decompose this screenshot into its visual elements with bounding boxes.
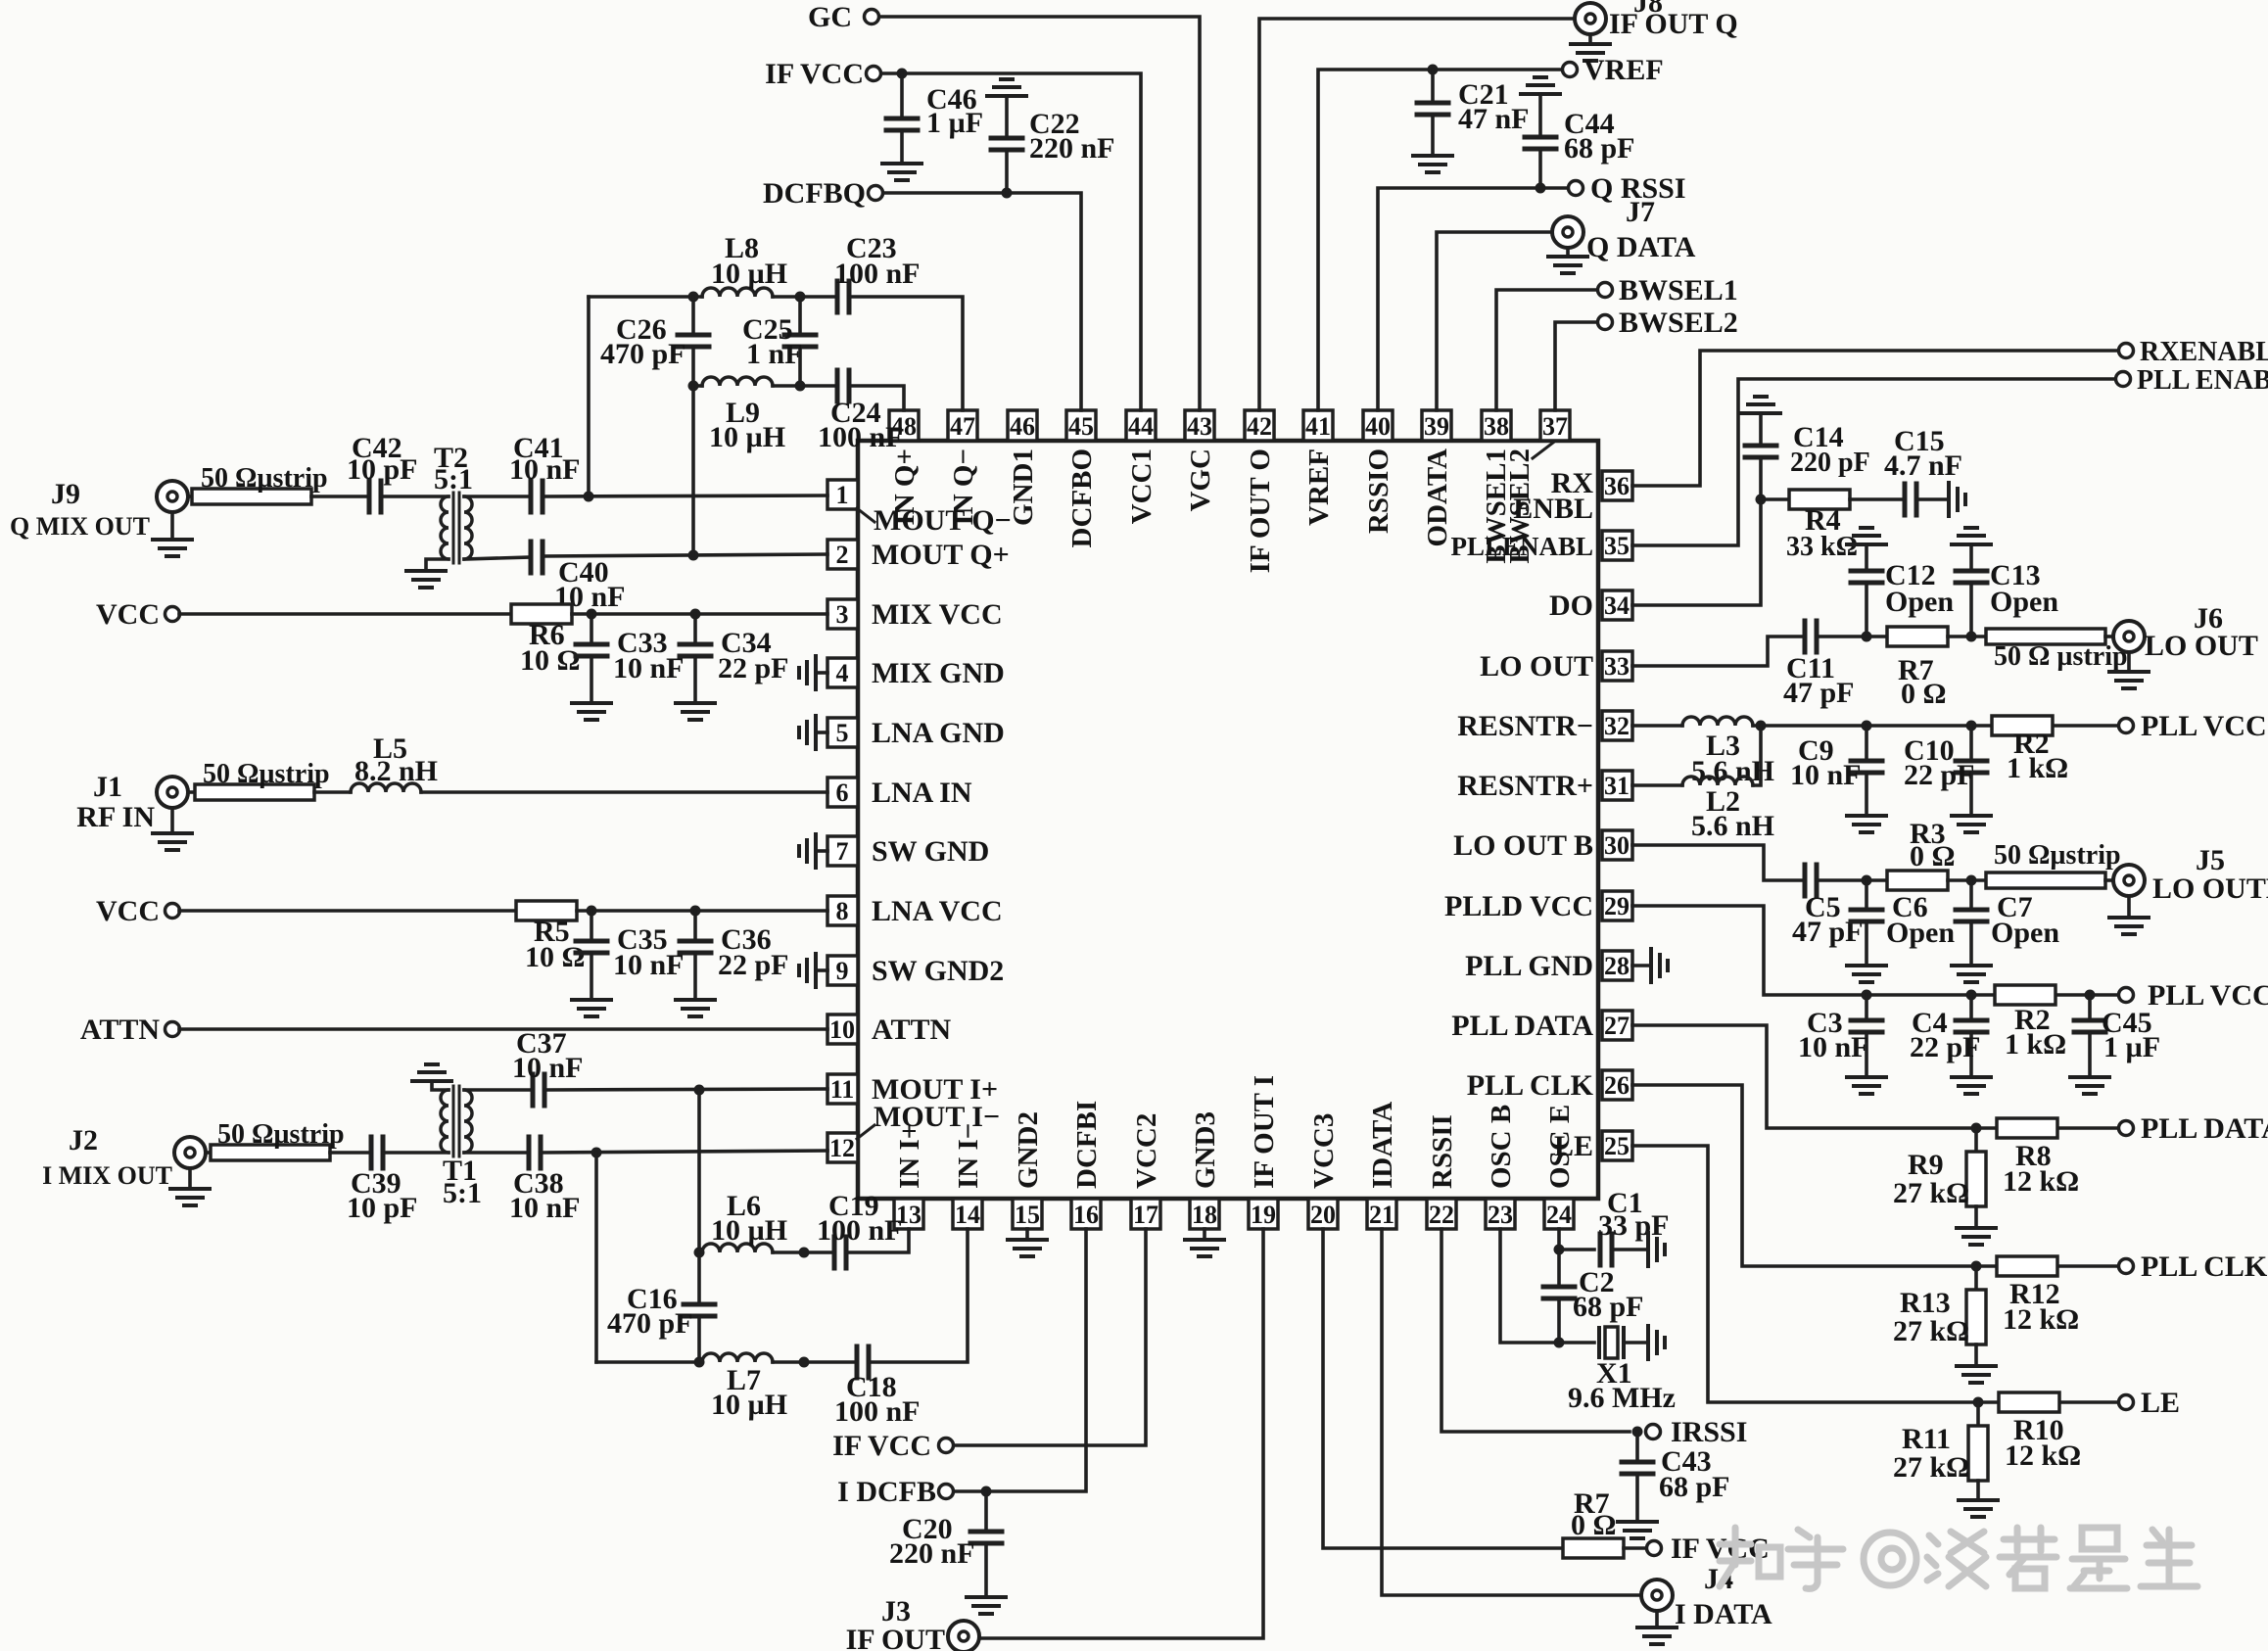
rail C26 to pin2 row: [691, 386, 695, 555]
PLL VCC terminal upper: [2119, 719, 2134, 733]
wire R4 to C15: [1850, 497, 1905, 501]
ground T1 inverted: [412, 1064, 451, 1081]
wire GC to pin43: [879, 17, 1200, 410]
svg-text:2: 2: [836, 541, 849, 569]
ground J4: [1655, 1611, 1659, 1627]
node C35 junction: [587, 906, 597, 917]
pin 40 box: [1363, 410, 1393, 441]
pin 42 box: [1245, 410, 1274, 441]
svg-text:47: 47: [950, 412, 975, 441]
capacitor C15: [1905, 484, 1916, 515]
wire ustrip to C39: [330, 1151, 371, 1155]
svg-text:LO OUT: LO OUT: [1480, 650, 1593, 683]
capacitor C22: [987, 79, 1026, 96]
node VREF junction: [1428, 65, 1439, 75]
capacitor C41: [531, 481, 543, 512]
node Q RSSI junction: [1536, 183, 1546, 194]
svg-text:IF OUT Q: IF OUT Q: [1609, 8, 1738, 40]
svg-text:PLL CLK: PLL CLK: [2141, 1250, 2268, 1283]
svg-text:RESNTR+: RESNTR+: [1457, 770, 1593, 802]
DCFBQ terminal: [869, 186, 883, 201]
svg-text:33 kΩ: 33 kΩ: [1786, 532, 1858, 562]
capacitor C20: [984, 1491, 988, 1531]
inductor L8: [702, 288, 773, 297]
svg-text:5:1: 5:1: [434, 463, 473, 495]
wire IF VCC to pin44: [881, 73, 1141, 410]
PLL CLK terminal: [2119, 1259, 2134, 1274]
node X1 junction: [1554, 1338, 1565, 1348]
node C20 junction: [981, 1486, 992, 1497]
capacitor C23: [837, 281, 849, 312]
svg-text:RF IN: RF IN: [76, 801, 155, 833]
capacitor C21: [1431, 70, 1435, 102]
pin 7 box: [827, 836, 858, 866]
pin 37 box: [1540, 410, 1570, 441]
svg-text:LNA GND: LNA GND: [872, 717, 1005, 749]
ground C45: [2070, 1077, 2109, 1094]
resistor R9: [1974, 1128, 1978, 1152]
ground X1: [1648, 1326, 1665, 1359]
svg-text:J9: J9: [51, 478, 80, 510]
svg-text:29: 29: [1604, 892, 1630, 920]
IC U1 body: [858, 441, 1598, 1199]
IF VCC terminal: [867, 67, 881, 81]
capacitor C10: [1969, 726, 1973, 760]
svg-text:50 Ωµstrip: 50 Ωµstrip: [201, 463, 328, 494]
wire pin32 RESNTR-: [1632, 724, 1682, 728]
wire C5 to R3: [1817, 878, 1887, 882]
svg-text:30: 30: [1604, 831, 1630, 860]
resistor R6: [511, 604, 572, 624]
ground pin15 GND2: [1025, 1229, 1029, 1240]
svg-text:7: 7: [836, 837, 849, 866]
svg-text:4.7 nF: 4.7 nF: [1884, 449, 1962, 482]
node L6 right junction: [799, 1248, 810, 1258]
capacitor C24: [837, 370, 849, 401]
svg-text:MIX GND: MIX GND: [872, 657, 1005, 689]
svg-text:0 Ω: 0 Ω: [1910, 840, 1956, 873]
svg-text:31: 31: [1604, 772, 1630, 800]
ground C36: [676, 1000, 715, 1016]
pin 30 box: [1602, 830, 1632, 860]
svg-text:IF VCC: IF VCC: [765, 58, 864, 90]
svg-text:16: 16: [1073, 1201, 1099, 1229]
svg-text:12 kΩ: 12 kΩ: [2005, 1439, 2081, 1472]
capacitor C12: [1847, 528, 1886, 544]
wire pin17 VCC2 riser: [954, 1229, 1146, 1445]
VREF terminal: [1563, 63, 1578, 77]
wire pin29 PLLD VCC: [1632, 906, 2118, 995]
svg-text:DCFBO: DCFBO: [1066, 448, 1098, 548]
wire pin36 RXENABL: [1632, 351, 2118, 486]
wire T2 to C40: [464, 557, 531, 559]
resistor R5: [516, 901, 577, 920]
wire J2 to ustrip: [206, 1151, 211, 1155]
microstrip 50ohm J5: [1986, 873, 2105, 888]
svg-text:100 nF: 100 nF: [834, 1395, 921, 1428]
I DCFB terminal: [939, 1485, 954, 1499]
node C16 bottom junction: [694, 1357, 705, 1368]
svg-text:27 kΩ: 27 kΩ: [1893, 1177, 1969, 1209]
svg-text:47 pF: 47 pF: [1783, 677, 1855, 709]
ground C35: [572, 1000, 611, 1016]
pin 28 box: [1602, 951, 1632, 980]
connector J6: [2113, 621, 2145, 652]
wire pin16 DCFBI riser: [954, 1229, 1086, 1491]
wire C40 to pin2: [543, 554, 827, 556]
wire pin24 OSC E riser: [1557, 1229, 1561, 1250]
svg-text:1 nF: 1 nF: [746, 338, 803, 370]
ground C21: [1413, 156, 1452, 172]
ground C3: [1847, 1077, 1886, 1094]
capacitor C18: [857, 1346, 869, 1378]
transformer T2: [441, 496, 449, 559]
svg-text:5:1: 5:1: [443, 1177, 482, 1209]
svg-text:PLL VCC: PLL VCC: [2141, 710, 2267, 742]
pin 36 box: [1602, 471, 1632, 500]
node C6 junction: [1862, 875, 1872, 886]
VCC terminal pin8: [165, 904, 180, 919]
capacitor C38: [529, 1137, 541, 1168]
ground J5: [2127, 896, 2131, 918]
wire pin22 RSSII to IRSSI: [1441, 1229, 1630, 1432]
capacitor C4: [1969, 995, 1973, 1019]
svg-text:BWSEL1: BWSEL1: [1619, 274, 1738, 307]
capacitor C3: [1865, 995, 1868, 1019]
inductor L5: [351, 783, 421, 792]
svg-text:18: 18: [1192, 1201, 1217, 1229]
node DO/C14 junction: [1756, 495, 1767, 505]
node C45 junction: [2085, 990, 2096, 1001]
svg-text:50 Ω µstrip: 50 Ω µstrip: [1994, 641, 2128, 672]
svg-text:36: 36: [1604, 472, 1630, 500]
node C3 junction: [1862, 990, 1872, 1001]
svg-text:27 kΩ: 27 kΩ: [1893, 1315, 1969, 1347]
wire ustrip to J5: [2105, 878, 2113, 882]
connector J8: [1575, 3, 1606, 34]
wire VCC to R6: [179, 612, 511, 616]
wire L6 to C19: [773, 1250, 834, 1254]
wire R4 row: [1761, 497, 1789, 501]
svg-text:9: 9: [836, 957, 849, 985]
svg-text:44: 44: [1128, 412, 1154, 441]
wire ustrip to L5: [314, 790, 351, 794]
svg-text:8: 8: [836, 897, 849, 925]
node IF VCC junction: [897, 69, 908, 79]
wire ustrip to C42: [311, 495, 369, 498]
svg-text:12 kΩ: 12 kΩ: [2003, 1165, 2079, 1198]
node L6 junction: [694, 1248, 705, 1258]
wire C42 to T2: [381, 495, 449, 498]
connector J7: [1552, 216, 1583, 248]
resistor R13: [1974, 1266, 1978, 1290]
svg-text:DCFBQ: DCFBQ: [763, 177, 866, 210]
wire pin40 Q RSSI: [1378, 188, 1568, 410]
capacitor C6: [1865, 880, 1868, 909]
pin 35 box: [1602, 531, 1632, 560]
inductor L3: [1682, 717, 1753, 726]
pin 34 box: [1602, 590, 1632, 620]
pin 16 box: [1071, 1199, 1101, 1229]
svg-text:BWSEL2: BWSEL2: [1504, 448, 1536, 564]
svg-text:ATTN: ATTN: [872, 1014, 951, 1046]
wire T2 to C41: [464, 495, 531, 498]
svg-text:100 nF: 100 nF: [834, 258, 921, 290]
svg-text:10 µH: 10 µH: [711, 1389, 787, 1421]
svg-text:1 kΩ: 1 kΩ: [2005, 1028, 2066, 1061]
capacitor C25: [798, 297, 802, 334]
svg-text:10 nF: 10 nF: [512, 1052, 584, 1084]
svg-text:IN Q+: IN Q+: [889, 448, 921, 526]
capacitor C11: [1805, 621, 1817, 652]
wire C39 to T1: [383, 1151, 449, 1155]
ground C20: [967, 1597, 1006, 1614]
resistor R11: [1976, 1402, 1980, 1426]
svg-text:24: 24: [1546, 1201, 1572, 1229]
svg-text:43: 43: [1187, 412, 1212, 441]
wire pin39 to J7: [1437, 232, 1552, 410]
ground pin9 SW GND2: [818, 968, 827, 972]
svg-text:RESNTR−: RESNTR−: [1457, 710, 1593, 742]
rail C16 top to bottom: [697, 1090, 701, 1303]
IRSSI terminal: [1646, 1425, 1661, 1439]
pin 5 box: [827, 718, 858, 747]
svg-text:10 nF: 10 nF: [1790, 759, 1862, 791]
node pin2 junction: [688, 550, 699, 561]
svg-text:VGC: VGC: [1185, 448, 1216, 511]
node IRSSI junction: [1632, 1427, 1643, 1438]
wire pin30 LO OUT B: [1632, 845, 1805, 880]
capacitor C2: [1557, 1250, 1561, 1286]
svg-text:10 nF: 10 nF: [509, 453, 581, 486]
node C4 junction: [1966, 990, 1977, 1001]
svg-text:IN Q−: IN Q−: [948, 448, 979, 526]
rail L8 left: [587, 297, 591, 496]
wire T1 gnd lead: [432, 1081, 449, 1090]
svg-text:VREF: VREF: [1583, 54, 1664, 86]
node C16 rail top junction: [694, 1085, 705, 1096]
watermark: [1720, 1528, 2197, 1588]
svg-text:PLL ENABL: PLL ENABL: [2137, 365, 2268, 396]
wire pin35 PLL ENABL: [1632, 379, 2115, 545]
node C1 junction: [1554, 1245, 1565, 1255]
IF VCC terminal mid: [939, 1439, 954, 1453]
node pin1 junction: [584, 492, 594, 502]
svg-text:Open: Open: [1885, 586, 1954, 618]
svg-text:8.2 nH: 8.2 nH: [354, 755, 438, 787]
wire T2 left-bottom to ground: [426, 559, 449, 569]
capacitor C26: [691, 297, 695, 334]
LE terminal: [2119, 1395, 2134, 1410]
wire pin20 VCC3 to R7b: [1323, 1229, 1563, 1548]
svg-text:10 pF: 10 pF: [347, 453, 418, 486]
wire DCFBQ to pin45: [883, 193, 1081, 410]
ground C34: [676, 703, 715, 720]
svg-text:22: 22: [1429, 1201, 1454, 1229]
wire R7b to IF VCC term: [1624, 1546, 1646, 1550]
svg-text:VCC: VCC: [96, 895, 160, 927]
Q RSSI terminal: [1569, 181, 1583, 196]
wire R3 to ustrip: [1948, 878, 1986, 882]
svg-text:ODATA: ODATA: [1422, 448, 1453, 546]
svg-text:45: 45: [1068, 412, 1094, 441]
resistor R7 bottom: [1563, 1538, 1624, 1558]
svg-text:LO OUT: LO OUT: [2145, 630, 2258, 662]
ground J9: [170, 512, 174, 540]
svg-text:ATTN: ATTN: [80, 1014, 160, 1046]
ground pin18 GND3: [1203, 1229, 1206, 1240]
inductor L2: [1682, 777, 1753, 785]
microstrip 50ohm J9: [192, 489, 311, 504]
connector J9: [157, 481, 188, 512]
svg-text:35: 35: [1604, 532, 1630, 560]
pin 10 box: [827, 1014, 858, 1044]
capacitor C19: [834, 1237, 846, 1268]
svg-text:I MIX OUT: I MIX OUT: [42, 1161, 172, 1190]
svg-text:46: 46: [1010, 412, 1035, 441]
svg-text:27 kΩ: 27 kΩ: [1893, 1451, 1969, 1484]
svg-text:LE: LE: [2141, 1387, 2180, 1419]
svg-text:22 pF: 22 pF: [718, 949, 789, 981]
svg-text:5: 5: [836, 719, 849, 747]
svg-text:41: 41: [1305, 412, 1331, 441]
wire ustrip to J6: [2105, 635, 2113, 638]
svg-text:Q DATA: Q DATA: [1586, 231, 1696, 263]
pin 45 box: [1066, 410, 1096, 441]
VCC terminal pin3: [165, 607, 180, 622]
svg-text:IF OUT O: IF OUT O: [1245, 448, 1276, 573]
svg-text:50 Ωµstrip: 50 Ωµstrip: [217, 1119, 345, 1150]
capacitor C37: [533, 1074, 544, 1106]
inductor L6: [702, 1244, 773, 1252]
svg-text:10 µH: 10 µH: [711, 1214, 787, 1247]
connector J4: [1641, 1580, 1673, 1611]
wire J9 to ustrip: [188, 495, 192, 498]
ground J2: [188, 1168, 192, 1189]
ground J1: [170, 808, 174, 833]
wire C37 to pin11: [544, 1089, 827, 1090]
svg-text:220 nF: 220 nF: [1029, 132, 1115, 165]
svg-text:14: 14: [955, 1201, 980, 1229]
wire C19 to pin13: [846, 1229, 909, 1252]
node L9 right junction: [795, 381, 806, 392]
pin 46 box: [1008, 410, 1037, 441]
svg-text:IF OUT: IF OUT: [846, 1624, 945, 1651]
ground J6: [2127, 652, 2131, 672]
svg-text:27: 27: [1604, 1012, 1630, 1040]
capacitor C9: [1865, 726, 1868, 760]
svg-text:10: 10: [829, 1015, 855, 1044]
svg-text:VCC: VCC: [96, 598, 160, 631]
wire pin26 PLL CLK: [1632, 1085, 2118, 1266]
ground C10: [1952, 816, 1991, 832]
wire pin31 RESNTR+: [1632, 783, 1682, 787]
svg-text:GND2: GND2: [1013, 1111, 1044, 1189]
pin 38 box: [1482, 410, 1511, 441]
svg-text:J2: J2: [69, 1124, 98, 1156]
svg-text:220 nF: 220 nF: [889, 1537, 975, 1570]
node L9 left junction: [688, 381, 699, 392]
ground C4: [1952, 1077, 1991, 1094]
connector J2: [174, 1137, 206, 1168]
resistor R3: [1887, 871, 1948, 890]
pin 24 box: [1544, 1199, 1574, 1229]
svg-text:SW GND2: SW GND2: [872, 955, 1004, 987]
node C36 junction: [690, 906, 701, 917]
node pin12 junction: [591, 1148, 602, 1158]
svg-text:IRSSI: IRSSI: [1671, 1416, 1747, 1448]
svg-text:19: 19: [1251, 1201, 1276, 1229]
ground R11: [1959, 1500, 1998, 1517]
capacitor C44: [1521, 77, 1560, 94]
RXENABL terminal: [2119, 344, 2134, 358]
wire L6 row: [699, 1250, 702, 1254]
capacitor C34: [693, 614, 697, 643]
capacitor C5: [1805, 865, 1817, 896]
svg-text:40: 40: [1365, 412, 1391, 441]
svg-text:21: 21: [1369, 1201, 1394, 1229]
node C7 junction: [1966, 875, 1977, 886]
ground C9: [1847, 816, 1886, 832]
svg-text:J7: J7: [1626, 196, 1655, 228]
svg-text:4: 4: [836, 659, 849, 687]
ground C7: [1952, 966, 1991, 982]
svg-text:32: 32: [1604, 712, 1630, 740]
capacitor C36: [693, 911, 697, 940]
capacitor C42: [369, 481, 381, 512]
svg-text:12 kΩ: 12 kΩ: [2003, 1303, 2079, 1336]
svg-text:J1: J1: [93, 771, 122, 803]
wire pin38 BWSEL1: [1496, 290, 1597, 410]
wire pin34 DO riser: [1632, 499, 1761, 605]
capacitor C39: [371, 1137, 383, 1168]
wire L9 to C24: [773, 384, 837, 388]
PLL VCC terminal lower: [2119, 988, 2134, 1003]
svg-text:20: 20: [1310, 1201, 1336, 1229]
pin 22 box: [1427, 1199, 1456, 1229]
wire R7 to ustrip: [1948, 635, 1986, 638]
svg-text:OSC E: OSC E: [1544, 1105, 1576, 1189]
svg-text:I DATA: I DATA: [1675, 1598, 1772, 1630]
wire pin41 VREF: [1318, 70, 1562, 410]
wire pin42 to J8: [1259, 19, 1575, 410]
wire R6 to pin3: [572, 612, 827, 616]
pin 32 box: [1602, 711, 1632, 740]
ground C15: [1949, 483, 1965, 516]
svg-text:GC: GC: [808, 1, 852, 33]
capacitor C14: [1741, 397, 1780, 413]
svg-text:IN I−: IN I−: [953, 1123, 984, 1189]
wire C11 to R7: [1817, 635, 1887, 638]
node C9 junction: [1862, 721, 1872, 731]
pin 14 box: [953, 1199, 982, 1229]
pin 9 box: [827, 956, 858, 985]
svg-text:LO OUTB: LO OUTB: [2152, 873, 2268, 905]
svg-text:23: 23: [1488, 1201, 1513, 1229]
wire L8 row: [589, 295, 702, 299]
svg-text:PLL VCC: PLL VCC: [2148, 979, 2268, 1012]
wire L8 to C23: [773, 295, 837, 299]
pin 6 box: [827, 778, 858, 807]
svg-text:LO OUT B: LO OUT B: [1453, 829, 1593, 862]
ground C1: [1648, 1233, 1665, 1266]
svg-text:100 nF: 100 nF: [817, 1214, 903, 1247]
svg-text:0 Ω: 0 Ω: [1571, 1509, 1617, 1541]
node C12 junction: [1862, 632, 1872, 642]
wire pin37 BWSEL2: [1555, 322, 1597, 410]
svg-text:22 pF: 22 pF: [1910, 1031, 1981, 1063]
svg-text:10 µH: 10 µH: [711, 258, 787, 290]
